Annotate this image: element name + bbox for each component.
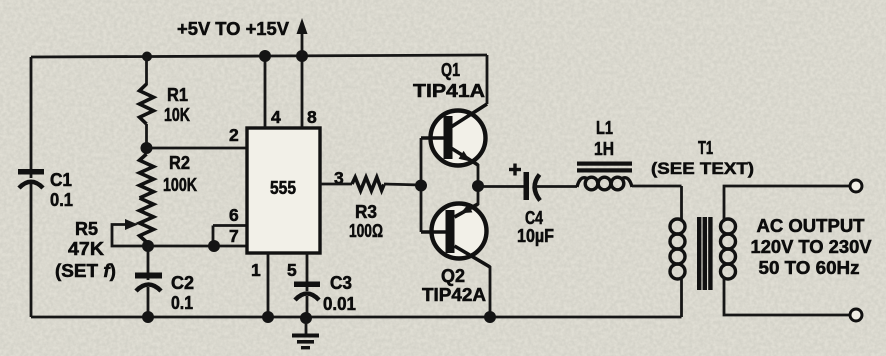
node Q2 collector bottom junction: [484, 311, 496, 323]
transistor Q1: [413, 60, 487, 166]
wire pin 7: [148, 245, 247, 248]
pin 8 label: [307, 107, 317, 127]
svg-text:1: 1: [251, 260, 261, 280]
node output terminal top: [850, 180, 862, 192]
node R1 top junction: [142, 52, 152, 62]
wire pin 2: [147, 147, 248, 150]
capacitor C2: [135, 273, 194, 314]
resistor R3: [349, 177, 384, 241]
wire C2 bottom lead: [147, 287, 150, 317]
wire T1 primary top lead: [680, 186, 683, 221]
pin 6 label: [229, 205, 239, 225]
wire pin 8: [301, 56, 304, 128]
svg-text:0.1: 0.1: [50, 190, 73, 210]
pin 2 label: [229, 125, 239, 145]
resistor R2: [140, 153, 198, 198]
svg-text:R5: R5: [75, 219, 98, 239]
svg-text:T1: T1: [698, 138, 713, 158]
wire T1 primary bottom lead: [680, 277, 683, 317]
capacitor C4: [509, 164, 554, 247]
wire Q2 collector: [489, 266, 492, 317]
svg-text:2: 2: [229, 125, 239, 145]
svg-text:(SEE TEXT): (SEE TEXT): [651, 159, 754, 178]
node pin8 rail junction: [296, 50, 308, 62]
potentiometer R5: [55, 198, 154, 281]
svg-text:R2: R2: [169, 153, 190, 173]
power arrow +V: [177, 18, 308, 56]
node ground junction: [300, 312, 312, 324]
node pin6/7 junction: [208, 240, 220, 252]
svg-text:5: 5: [287, 260, 297, 280]
node pin1 bottom junction: [262, 311, 274, 323]
svg-text:+5V TO +15V: +5V TO +15V: [177, 19, 289, 39]
svg-text:4: 4: [271, 107, 281, 127]
wire R5 wiper: [112, 219, 148, 246]
pin 1 label: [251, 260, 261, 280]
svg-text:Q2: Q2: [441, 266, 465, 286]
node AC output text: [751, 216, 872, 278]
capacitor C3: [294, 273, 356, 314]
wire T1 secondary bottom: [724, 277, 851, 315]
svg-text:R3: R3: [355, 202, 377, 222]
wire L1 to T1: [632, 185, 682, 188]
wire pin 3: [320, 183, 352, 186]
wire base bus: [420, 138, 423, 232]
ground: [292, 318, 319, 349]
svg-text:1H: 1H: [594, 139, 614, 159]
pin 5 label: [287, 260, 297, 280]
wire C2 top lead: [147, 246, 150, 280]
pin 7 label: [229, 226, 239, 246]
wire C3 bottom lead: [306, 296, 309, 318]
wire pin 1: [267, 253, 270, 317]
node emitter junction: [472, 180, 484, 192]
wire Q2 emitter: [477, 186, 480, 205]
wire left vertical (C1 branch): [30, 57, 33, 317]
wire C4 to L1: [534, 185, 577, 188]
svg-text:C4: C4: [525, 208, 543, 228]
resistor R1: [140, 84, 191, 125]
svg-text:50 TO 60Hz: 50 TO 60Hz: [759, 258, 860, 278]
wire R3 to bases: [384, 184, 421, 185]
svg-text:Q1: Q1: [441, 60, 460, 80]
node R5 bottom junction: [142, 240, 154, 252]
svg-text:TIP41A: TIP41A: [413, 81, 485, 101]
svg-text:100Ω: 100Ω: [349, 221, 383, 241]
pin 3 label: [334, 168, 344, 188]
svg-text:100K: 100K: [163, 175, 197, 195]
pin 4 label: [271, 107, 281, 127]
node output terminal bottom: [850, 309, 862, 321]
node base junction: [415, 180, 427, 192]
svg-text:0.1: 0.1: [171, 293, 193, 313]
wire pin 4: [264, 56, 267, 128]
wire T1 secondary top: [724, 186, 851, 221]
wire bottom rail: [31, 316, 682, 319]
svg-text:7: 7: [229, 226, 239, 246]
op-amp U1 555 timer: [247, 128, 320, 253]
node C2 bottom junction: [142, 311, 154, 323]
wire pin 6: [213, 226, 247, 247]
svg-text:TIP42A: TIP42A: [422, 285, 486, 305]
wire R1 top lead: [145, 57, 148, 85]
inductor L1: [577, 118, 632, 190]
svg-text:C2: C2: [171, 273, 194, 293]
wire Q1 emitter: [477, 164, 480, 186]
svg-text:6: 6: [229, 205, 239, 225]
wire R1 bottom lead: [145, 124, 148, 148]
svg-text:10K: 10K: [164, 105, 190, 125]
capacitor C1: [18, 169, 73, 210]
wire Q1 collector: [486, 55, 489, 104]
wire emitter to C4: [478, 185, 524, 188]
node pin2 junction: [141, 142, 153, 154]
svg-text:555: 555: [270, 178, 296, 198]
node pin4 rail junction: [259, 50, 271, 62]
svg-text:C3: C3: [330, 273, 352, 293]
svg-text:10µF: 10µF: [517, 226, 554, 246]
svg-text:AC OUTPUT: AC OUTPUT: [757, 216, 865, 236]
svg-text:L1: L1: [596, 118, 613, 138]
wire top rail: [31, 55, 487, 57]
svg-text:(SET f): (SET f): [55, 261, 116, 281]
svg-text:0.01: 0.01: [323, 294, 356, 314]
svg-text:120V TO 230V: 120V TO 230V: [751, 237, 872, 257]
svg-text:47K: 47K: [68, 239, 104, 259]
wire pin 5: [306, 253, 309, 291]
svg-text:C1: C1: [50, 170, 72, 190]
svg-text:8: 8: [307, 107, 317, 127]
transistor Q2: [421, 204, 490, 306]
svg-text:R1: R1: [167, 85, 188, 105]
transformer T1: [651, 138, 754, 290]
